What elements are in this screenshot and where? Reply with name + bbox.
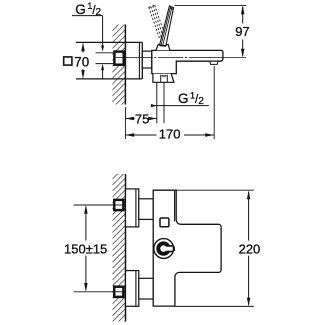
wall hatching (bottom drawing) — [113, 174, 126, 322]
170 arrow right — [205, 133, 214, 136]
body right side inner edge line — [174, 191, 176, 222]
150+-15 arrow down — [84, 283, 87, 292]
lever dome — [156, 45, 170, 51]
GROHE logo: white slot of G — [164, 247, 173, 251]
bottom escutcheon — [126, 271, 139, 307]
G1/2 top dim: arrow up to thread — [101, 64, 104, 70]
G1/2 top dim: lower arrow tail — [102, 69, 104, 79]
G1/2 top dim: leader down — [102, 16, 104, 46]
75 arrow left — [125, 117, 134, 120]
svg-text:70: 70 — [74, 55, 89, 70]
svg-text:75: 75 — [135, 111, 149, 126]
text sq70: square symbol — [64, 57, 72, 65]
mixer body and spout outline (side view) — [152, 50, 223, 73]
escutcheon inner step line — [138, 42, 140, 79]
wall hatching (top drawing) — [112, 25, 125, 105]
lever inner line 1 — [161, 6, 171, 45]
GROHE logo: slot bottom border — [167, 251, 173, 253]
220 dim line upper — [248, 192, 250, 241]
lever inner line 2 — [163, 7, 172, 45]
wall extension line down to dims — [124, 107, 126, 139]
220 dim: bottom extension line — [175, 305, 254, 307]
220 arrow up — [247, 190, 250, 199]
150+-15 arrow up — [84, 205, 87, 214]
svg-text:150±15: 150±15 — [64, 241, 107, 256]
top escutcheon inner line — [135, 189, 137, 227]
G1/2 top dim: arrow down to thread — [101, 46, 104, 52]
97 dim: top extension line — [175, 4, 247, 6]
G1/2 wall fitting (union in wall) — [114, 52, 123, 65]
escutcheon right face — [141, 42, 143, 79]
170 right extension line from aerator — [213, 66, 215, 139]
GROHE logo: slot top border — [167, 245, 173, 247]
170 dim line right — [184, 134, 214, 136]
mixer body with spout block (front view) — [153, 190, 221, 306]
220 dim line lower — [248, 256, 250, 305]
97 arrow up — [241, 5, 244, 14]
sq70 dim line upper part — [82, 44, 84, 53]
wall surface line (bottom drawing) — [125, 174, 127, 322]
outlet pipe right line — [163, 82, 165, 123]
G1/2 top dim: underline — [72, 15, 103, 17]
170 dim line left — [125, 134, 156, 136]
outlet inner pipe left line — [160, 75, 162, 83]
150+-15 dim line lower — [85, 256, 87, 291]
150+-15 dim line upper — [85, 207, 87, 241]
G1/2 lower dim: underline and leader — [151, 105, 209, 107]
75 dim line left — [125, 118, 134, 120]
170 arrow left — [125, 133, 134, 136]
G1/2 lower dim: arrow to outlet pipe — [151, 104, 157, 107]
bottom union fitting — [114, 287, 123, 297]
75 dim line right — [148, 118, 157, 120]
sq70 arrow down — [81, 70, 84, 79]
thread feature line top — [96, 52, 115, 54]
svg-text:220: 220 — [239, 241, 261, 256]
97 dim line lower — [242, 40, 244, 57]
spout centerline axis — [116, 57, 153, 59]
sq70 arrow up — [81, 42, 84, 51]
bottom escutcheon inner line — [135, 271, 137, 307]
GROHE logo: thick inner ring — [158, 243, 168, 253]
outlet diameter arrows mark — [161, 75, 167, 77]
GROHE logo: bar end cap — [173, 246, 175, 251]
outlet pipe left line — [156, 82, 158, 123]
svg-text:170: 170 — [159, 127, 181, 142]
wall surface line (top drawing) — [124, 25, 126, 105]
GROHE logo: outer circle — [154, 239, 174, 259]
lever tip step — [170, 8, 174, 10]
75 arrow right — [148, 117, 157, 120]
shower outlet block under body — [153, 74, 174, 83]
neck between escutcheon and body — [142, 51, 152, 68]
dashed lever (second position) — [149, 5, 165, 38]
escutcheon flange bottom edge / ext line — [76, 78, 142, 80]
top escutcheon — [126, 189, 139, 227]
97 dim line upper — [242, 7, 244, 24]
top neck — [139, 199, 153, 220]
220 arrow down — [247, 298, 250, 307]
solid lever handle — [160, 6, 174, 46]
small square button on body — [160, 218, 169, 227]
escutcheon flange top edge / ext line — [76, 41, 142, 43]
sq70 dim line lower part — [82, 69, 84, 78]
220 dim: top extension line — [176, 189, 254, 191]
bottom neck — [139, 278, 153, 299]
lever bottom cap — [160, 44, 167, 47]
top union centerline / ext line — [74, 204, 131, 206]
bottom union centerline / ext line — [74, 291, 131, 293]
aerator under spout tip — [210, 61, 218, 64]
outlet inner pipe right line — [166, 75, 168, 83]
thread feature line bottom — [96, 63, 115, 65]
97 arrow down — [241, 49, 244, 58]
top union fitting — [114, 200, 123, 210]
svg-text:97: 97 — [235, 24, 249, 39]
